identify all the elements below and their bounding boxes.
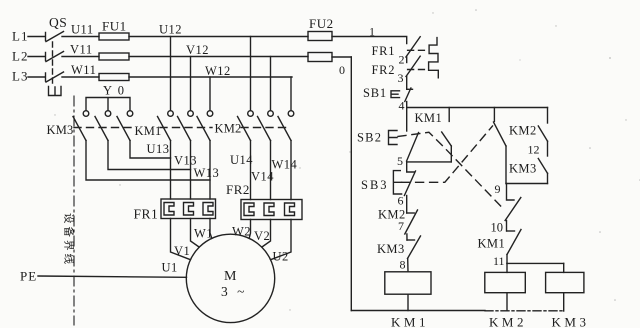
wire KM2 output 1 / node U14 [250,141,252,200]
svg-text:1: 1 [369,25,375,39]
wire coil KM2 to rail [506,293,508,311]
svg-text:8: 8 [400,258,406,272]
wire drop V12 to KM1 [190,57,192,111]
wire PE to motor [38,276,187,277]
fuse FU1 phase U [99,33,129,40]
wire FR2 to motor U2 [271,220,291,260]
wire KM2 output 3 / node W14 [290,141,292,200]
contact KM3 self-hold (NO) [538,159,547,184]
wire bottom rail solid [351,310,485,312]
svg-text:KM2: KM2 [215,122,242,136]
contact KM2 interlock (NC) [405,210,418,240]
wire V11 [62,56,99,58]
svg-text:6: 6 [398,194,404,208]
button SB2 (start, NO) [389,108,419,162]
svg-text:设备界线: 设备界线 [63,213,76,267]
contactor KM1 main contact 3 [197,111,213,141]
svg-text:FU2: FU2 [309,16,334,31]
contactor KM3 main contact 2 [95,111,111,141]
thermal relay FR2 element 3 [285,203,295,216]
svg-text:3 ~: 3 ~ [221,284,247,299]
svg-text:L2: L2 [12,49,28,64]
svg-text:2: 2 [399,53,405,67]
thermal release hook linkage [429,38,439,78]
fuse FU2 lower [308,53,332,62]
wire L2 to QS [28,53,46,61]
svg-text:KM1: KM1 [415,111,443,125]
svg-text:KM1: KM1 [478,237,506,251]
wire L1 to QS [28,33,46,41]
thermal relay FR2 element 1 [244,203,254,216]
svg-text:V12: V12 [186,43,209,57]
thermal relay FR1 element 3 [203,203,213,216]
wire W11 [62,76,99,78]
svg-text:L1: L1 [12,29,28,44]
contactor KM2 main contact 1 [238,111,254,141]
svg-text:Y 0: Y 0 [103,84,125,98]
dashed link SB3 to its NO half [402,126,493,182]
wire bottom rail dash-dot [485,310,564,312]
wire node 4 bus [407,107,548,109]
wire coil KM3 to rail [563,293,565,311]
contactor KM2 main contact 2 [258,111,274,141]
wire FR1 to motor U1 [171,219,191,260]
svg-text:11: 11 [493,254,505,268]
svg-text:5: 5 [397,154,403,168]
wire L3 to QS [28,73,46,81]
contact KM3 interlock (NC) [407,236,421,272]
svg-text:KM1: KM1 [135,124,162,138]
wire coil KM3 top stub [563,263,565,272]
coil KM3 [546,272,584,292]
wire coil KM2 top stub [506,263,508,272]
svg-text:U12: U12 [159,23,182,37]
svg-text:U1: U1 [162,261,178,275]
wire node 1 feed [332,37,407,44]
thermal contact FR1 (NC) [406,37,425,63]
svg-text:KM2: KM2 [509,124,537,138]
thermal relay FR1 element 1 [164,203,174,216]
svg-text:QS: QS [49,15,67,30]
svg-text:W2: W2 [232,225,251,239]
dashed link SB2 to its NC half [398,132,505,210]
thermal contact FR2 (NC) [406,56,424,88]
svg-text:V14: V14 [251,170,274,184]
switch QS pole 1 blade [46,32,64,42]
svg-text:4: 4 [399,99,405,113]
svg-text:FR2: FR2 [372,63,396,77]
svg-text:KM3: KM3 [552,315,590,328]
svg-text:FU1: FU1 [102,19,127,34]
fuse FU1 phase W [99,74,129,81]
svg-text:V2: V2 [254,229,270,243]
button SB2 (NC half, remote) [505,184,521,232]
contactor KM2 main contact 3 [278,111,294,141]
contact KM1 interlock (NC) [507,230,521,264]
svg-text:U2: U2 [273,250,289,264]
switch QS pole 2 blade [46,52,64,62]
wire W12 bus [129,76,292,78]
switch QS handle bracket [49,87,62,96]
svg-text:U14: U14 [230,153,253,167]
svg-text:FR1: FR1 [372,44,396,58]
fuse FU2 upper [308,32,332,41]
contactor KM3 main contact 3 [117,111,133,141]
wire drop U12 to KM1 [170,37,172,111]
svg-text:L3: L3 [12,69,28,84]
switch QS mechanical link (dashed) [52,42,54,85]
thermal relay FR2 box [241,200,302,220]
svg-text:W14: W14 [272,158,298,172]
svg-text:KM2: KM2 [489,315,527,328]
svg-text:10: 10 [491,221,504,235]
wire KM1 output 3 / node W13 [209,141,211,200]
svg-text:9: 9 [495,182,501,196]
svg-text:KM3: KM3 [47,123,74,137]
svg-text:W13: W13 [194,166,220,180]
svg-text:SB2: SB2 [357,131,382,145]
svg-text:0: 0 [339,63,345,77]
wire drop V12 to KM2 [270,57,272,111]
svg-text:U11: U11 [71,23,94,37]
button SB3 (NC half) [393,162,415,213]
wire KM3 output 3 to U13 [130,141,171,159]
mechanical link dashes KM3 [74,127,133,129]
svg-text:M: M [224,269,237,284]
button SB1 (stop, NC) [391,88,413,108]
wire KM2 output 2 / node V14 [270,141,272,200]
wire drop W12 to KM1 [209,77,211,111]
svg-text:12: 12 [528,143,540,157]
svg-text:SB1: SB1 [363,86,387,100]
thermal relay FR1 element 2 [184,203,194,216]
wire node 9 [506,183,548,185]
wire FR2 to motor W2 [249,220,250,239]
mechanical link dashes KM1 [160,127,212,129]
wire 0 rail vertical [350,57,352,311]
equipment boundary dash-dot line [73,96,75,325]
wire coil KM1 to rail [407,294,409,310]
wire FR1 to motor V1 [191,219,200,248]
svg-text:FR1: FR1 [134,207,159,222]
contactor KM1 main contact 1 [158,111,174,141]
svg-text:V11: V11 [70,43,93,57]
svg-text:SB3: SB3 [361,178,389,192]
wire U12 bus [129,36,308,38]
wire U11 [62,36,99,38]
svg-text:V1: V1 [174,244,190,258]
wire node 11 [507,262,564,264]
wire 0 rail top [332,56,351,58]
switch QS pole 3 blade [46,72,64,82]
wire FR2 to motor V2 [262,220,271,248]
svg-text:KM3: KM3 [377,242,405,256]
fuse FU1 phase V [99,53,129,60]
node Y0 star bracket [86,98,130,111]
svg-text:U13: U13 [147,142,170,156]
mechanical link dashes KM2 [241,127,290,129]
contact KM1 self-hold (NO) [442,108,452,162]
svg-text:KM3: KM3 [509,162,537,176]
contact KM2 self-hold (NO) [538,108,547,157]
coil KM1 [385,272,431,294]
thermal relay FR2 element 2 [264,203,274,216]
svg-text:KM1: KM1 [391,315,429,328]
wire KM1 output 2 / node V13 [190,141,192,200]
coil KM2 [485,272,526,292]
wire FR1 to motor W1 [210,219,212,239]
contactor KM3 main contact 1 [73,111,89,141]
wire KM1 output 1 / node U13 [170,141,172,200]
thermal relay FR1 box [161,199,216,219]
wire KM3 output 2 to V13 [108,141,191,170]
wire drop U12 to KM2 [250,37,252,111]
contactor KM1 main contact 2 [178,111,194,141]
wire node 5 [407,161,452,163]
svg-text:PE: PE [20,269,37,284]
wire drop W12 to KM2 [290,77,292,111]
svg-text:W11: W11 [71,63,96,77]
motor M circle [186,234,274,322]
svg-text:W12: W12 [205,64,231,78]
wire V12 bus [129,56,308,58]
wire KM3 output 1 to W13 [86,141,210,181]
svg-text:7: 7 [398,219,404,233]
svg-text:3: 3 [398,71,404,85]
svg-text:FR2: FR2 [226,182,250,197]
button SB3 (NO half, remote) [494,108,507,184]
